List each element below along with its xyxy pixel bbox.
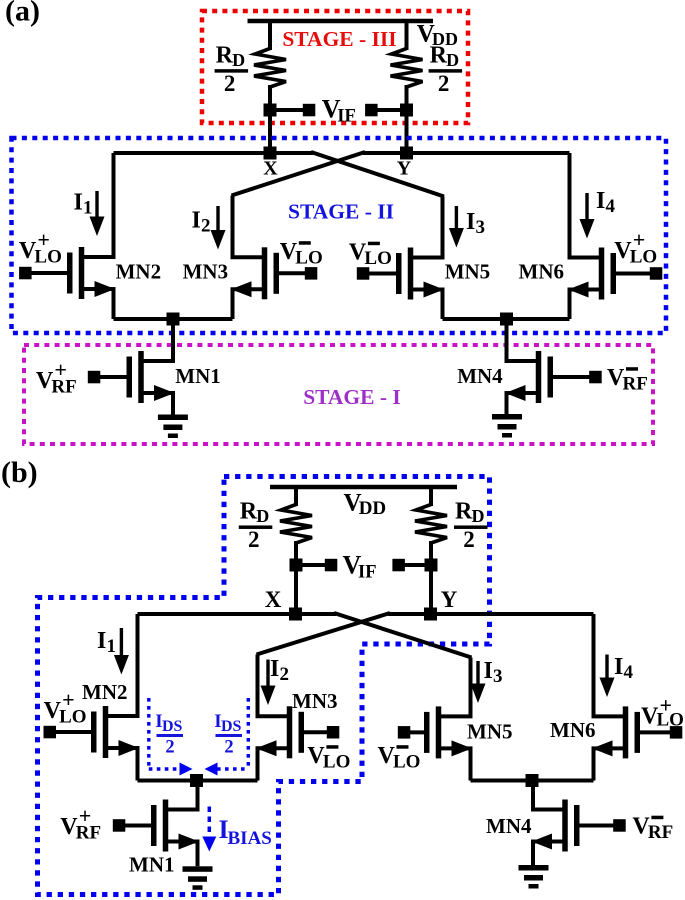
svg-text:2: 2	[248, 527, 260, 552]
net label VRF- for MN4 (b)	[632, 814, 673, 844]
wire: right resistor to node Y (b)	[429, 541, 433, 614]
svg-text:Y: Y	[441, 587, 458, 612]
current label I2 (b)	[270, 656, 289, 685]
IBIAS dashed arrow (b)	[202, 807, 216, 852]
transistor MN1 (a): gate terminal pad	[88, 371, 101, 384]
junction: MN2/MN3 sources (b)	[190, 774, 203, 787]
svg-text:+: +	[79, 803, 92, 828]
transistor MN4 (a): drain wire	[507, 319, 539, 361]
transistor MN6 (b): gate terminal pad	[670, 726, 683, 739]
junction: right resistor / VIF tap (a)	[400, 104, 413, 117]
svg-text:I: I	[74, 190, 83, 216]
transistor MN4 (b): gate bar	[574, 805, 580, 846]
net label VLO+ for MN2 (b)	[44, 687, 87, 728]
transistor MN6 (a): gate terminal pad	[650, 267, 663, 280]
net label VLO- for MN5 (b)	[378, 743, 421, 773]
current label I4 (b)	[614, 654, 634, 683]
svg-text:MN3: MN3	[183, 260, 229, 284]
svg-text:MN2: MN2	[116, 260, 162, 284]
transistor MN3 (a): source wire	[233, 289, 265, 319]
transistor MN5 (b): channel bar	[436, 706, 442, 758]
wire: VIF right tap (b)	[398, 563, 431, 567]
wire: right resistor to node Y (a)	[405, 85, 409, 153]
terminal pad VIF right (b)	[392, 559, 405, 572]
transistor MN6 (a): source wire	[570, 290, 602, 320]
wire: VDD rail to right resistor (a)	[405, 19, 409, 50]
ground symbol (MN4 source (a))	[492, 414, 522, 438]
transistor MN3 (a): source arrow	[231, 281, 252, 297]
current arrow I1 (a)	[90, 191, 105, 236]
transistor MN6 (b): gate wire	[640, 730, 676, 734]
svg-text:I: I	[466, 209, 475, 235]
IDS/2 dotted path right vertical (b)	[247, 698, 250, 769]
transistor MN1 (a): channel bar	[138, 351, 144, 403]
svg-text:2: 2	[280, 664, 290, 685]
transistor MN3 (a): gate bar	[274, 253, 280, 294]
STAGE-II dotted box (a)	[12, 138, 667, 333]
svg-text:D: D	[472, 506, 485, 526]
transistor MN1 (a): source arrow	[154, 385, 175, 401]
net label VIF (a)	[322, 95, 356, 127]
svg-text:MN2: MN2	[82, 680, 128, 704]
svg-text:1: 1	[107, 636, 117, 657]
transistor MN5 (b): source wire	[439, 748, 471, 780]
net label VDD (a)	[417, 21, 458, 50]
svg-text:I: I	[270, 656, 279, 682]
svg-text:+: +	[62, 687, 75, 712]
svg-text:2: 2	[463, 527, 475, 552]
svg-text:2: 2	[224, 71, 236, 96]
transistor MN2 (a): source wire	[82, 289, 114, 319]
svg-text:MN6: MN6	[519, 260, 565, 284]
wire: VDD rail to left resistor (b)	[294, 485, 298, 506]
net label VRF- for MN4 (a)	[607, 365, 648, 395]
transistor MN5 (a): drain wire	[411, 197, 443, 258]
junction: left resistor / VIF tap (b)	[290, 559, 303, 572]
svg-text:STAGE - I: STAGE - I	[303, 385, 401, 409]
wire: VIF right tap (a)	[371, 108, 407, 112]
wire: diagonal X rail to MN5 drain (b)	[334, 613, 472, 658]
transistor MN2 (b): source wire	[106, 748, 138, 781]
transistor MN1 (b): channel bar	[163, 800, 169, 852]
value label RD/2 left (a) (RD/2)	[215, 42, 249, 96]
net label VLO- for MN3 (b)	[307, 743, 350, 773]
svg-text:3: 3	[493, 666, 503, 687]
transistor MN6 (a): gate bar	[611, 253, 617, 294]
blue dotted highlight outline (b)	[38, 477, 490, 895]
svg-text:I: I	[484, 658, 493, 684]
current arrow I4 (a)	[580, 193, 595, 239]
net label VRF+ for MN1 (b)	[60, 803, 101, 844]
transistor MN4 (a): gate bar	[548, 357, 554, 398]
transistor MN4 (a): source wire	[507, 393, 539, 414]
node X junction (b)	[289, 608, 302, 621]
svg-text:DS: DS	[162, 718, 183, 735]
STAGE-III dotted box (a)	[202, 11, 468, 123]
transistor MN3 (b): gate bar	[299, 712, 305, 753]
transistor MN3 (b): channel bar	[287, 706, 293, 758]
wire: diagonal Y rail to MN3 drain (a)	[232, 152, 366, 196]
wire: MN5-MN6 common source rail (a)	[443, 317, 570, 321]
svg-text:I: I	[192, 208, 201, 234]
transistor MN6 (b): drain wire	[594, 614, 626, 716]
current label I3 (a)	[466, 209, 485, 238]
junction: MN2/MN3 sources (a)	[167, 313, 180, 326]
current arrow I2 (b)	[261, 660, 276, 706]
transistor MN2 (b): channel bar	[103, 706, 109, 758]
svg-text:MN5: MN5	[445, 260, 491, 284]
transistor MN5 (b): source arrow	[452, 740, 473, 756]
transistor MN6 (b): gate bar	[635, 712, 641, 753]
transistor MN5 (a): gate bar	[396, 253, 402, 294]
svg-text:RF: RF	[648, 822, 673, 843]
net label VRF+ for MN1 (a)	[36, 357, 77, 398]
transistor MN3 (a): gate terminal pad	[305, 267, 318, 280]
svg-text:STAGE - III: STAGE - III	[282, 27, 396, 51]
resistor RD/2 right (a) zigzag	[391, 49, 423, 88]
transistor MN5 (b): gate terminal pad	[398, 726, 411, 739]
transistor MN4 (b): source wire	[533, 842, 565, 866]
current arrow I1 (b)	[114, 628, 129, 675]
svg-text:DS: DS	[221, 718, 242, 735]
svg-text:D: D	[256, 506, 269, 526]
transistor MN2 (a): gate terminal pad	[19, 267, 32, 280]
svg-text:IF: IF	[358, 563, 377, 583]
wire: MN5-MN6 common source rail (b)	[471, 779, 594, 783]
transistor MN6 (b): source wire	[594, 748, 626, 780]
transistor MN4 (a): gate wire	[553, 375, 596, 379]
svg-text:+: +	[660, 693, 673, 718]
wire: left output rail through X (b)	[138, 612, 337, 616]
svg-text:(a): (a)	[5, 0, 40, 28]
transistor MN3 (b): gate wire	[304, 730, 333, 734]
wire: diagonal X rail to MN5 drain (a)	[311, 152, 444, 197]
transistor MN5 (b): gate bar	[424, 712, 430, 753]
transistor MN2 (a): source arrow	[95, 281, 116, 297]
wire: right output rail through Y (a)	[363, 151, 570, 155]
node X junction (a)	[264, 147, 277, 160]
transistor MN4 (b): drain wire	[533, 781, 565, 810]
junction: MN5/MN6 sources (a)	[500, 313, 513, 326]
transistor MN3 (b): drain wire	[258, 655, 290, 717]
svg-text:3: 3	[476, 217, 486, 238]
transistor MN2 (b): source arrow	[119, 740, 140, 756]
resistor RD/2 left (a) zigzag	[254, 49, 286, 88]
ground symbol (MN4 source (b))	[519, 865, 549, 889]
wire: left output rail through X (a)	[114, 151, 314, 155]
svg-text:2: 2	[201, 216, 211, 237]
transistor MN5 (b): drain wire	[439, 658, 471, 717]
transistor MN3 (a): gate wire	[279, 271, 311, 275]
svg-text:D: D	[232, 50, 245, 70]
value label IDS/2 left (b)	[155, 711, 183, 758]
svg-text:2: 2	[438, 71, 450, 96]
transistor MN5 (a): gate terminal pad	[357, 267, 370, 280]
transistor MN6 (b): source arrow	[592, 740, 613, 756]
transistor MN4 (a): gate terminal pad	[589, 371, 602, 384]
svg-text:MN5: MN5	[467, 720, 513, 744]
wire: right output rail through Y (b)	[388, 612, 594, 616]
transistor MN6 (a): drain wire	[570, 153, 602, 258]
IDS/2 dotted path right horizontal (b)	[217, 767, 248, 770]
IDS/2 dotted path left horizontal (b)	[149, 767, 180, 770]
svg-text:4: 4	[624, 662, 634, 683]
transistor MN5 (a): channel bar	[408, 248, 414, 300]
transistor MN2 (b): gate terminal pad	[44, 726, 57, 739]
svg-text:X: X	[265, 587, 282, 612]
svg-text:+: +	[633, 227, 646, 252]
svg-text:D: D	[446, 50, 459, 70]
transistor MN1 (b): source arrow	[179, 834, 200, 850]
svg-text:4: 4	[606, 196, 616, 217]
IDS/2 dotted path left vertical (b)	[147, 698, 150, 769]
value label IDS/2 right (b)	[214, 711, 242, 758]
current arrow I3 (a)	[449, 206, 464, 248]
IDS/2 arrow left-pointing (b)	[205, 763, 218, 776]
svg-text:MN1: MN1	[129, 853, 175, 877]
svg-text:MN3: MN3	[292, 689, 338, 713]
transistor MN6 (b): channel bar	[623, 706, 629, 758]
transistor MN2 (a): drain wire	[82, 153, 114, 257]
net label VLO+ for MN6 (b)	[641, 693, 684, 731]
svg-text:MN1: MN1	[175, 364, 221, 388]
transistor MN6 (a): channel bar	[599, 248, 605, 300]
terminal pad VIF left (b)	[325, 559, 338, 572]
svg-text:(b): (b)	[1, 456, 38, 489]
junction: left resistor / VIF tap (a)	[264, 104, 277, 117]
transistor MN4 (b): source arrow	[532, 834, 553, 850]
transistor MN2 (b): drain wire	[106, 614, 138, 716]
ground symbol (MN1 source (a))	[158, 415, 188, 439]
transistor MN2 (a): gate wire	[25, 271, 67, 275]
net label VLO+ for MN2 (a)	[19, 227, 62, 268]
transistor MN1 (b): gate bar	[151, 805, 157, 846]
svg-text:IF: IF	[337, 107, 356, 127]
ground symbol (MN1 source (b))	[183, 866, 213, 890]
transistor MN3 (a): drain wire	[233, 196, 265, 258]
terminal pad VIF right (a)	[365, 104, 378, 117]
current label I4 (a)	[596, 188, 616, 217]
svg-text:R: R	[216, 42, 234, 68]
svg-text:1: 1	[83, 198, 93, 219]
resistor RD/2 left (b) zigzag	[280, 505, 312, 544]
svg-text:RF: RF	[623, 374, 648, 395]
transistor MN5 (a): source wire	[411, 290, 443, 320]
transistor MN1 (a): drain wire	[141, 319, 173, 361]
transistor MN1 (a): gate bar	[127, 357, 133, 398]
wire: diagonal Y rail to MN3 drain (b)	[257, 613, 391, 655]
node Y junction (a)	[400, 147, 413, 160]
STAGE-I dotted box (a)	[24, 345, 653, 444]
current arrow I4 (b)	[600, 655, 615, 698]
transistor MN6 (a): source arrow	[568, 282, 589, 298]
transistor MN2 (a): gate bar	[67, 253, 73, 294]
value label RD/2 left (b) (RD/2)	[239, 499, 272, 553]
current arrow I2 (a)	[211, 206, 226, 250]
terminal pad VIF left (a)	[303, 104, 316, 117]
svg-text:STAGE - II: STAGE - II	[288, 200, 394, 224]
svg-text:+: +	[37, 227, 50, 252]
svg-text:DD: DD	[359, 498, 386, 519]
junction: MN5/MN6 sources (b)	[526, 774, 539, 787]
transistor MN2 (a): channel bar	[79, 247, 85, 299]
resistor RD/2 right (b) zigzag	[415, 505, 447, 544]
transistor MN5 (a): source arrow	[424, 282, 445, 298]
transistor MN5 (a): gate wire	[363, 272, 396, 276]
transistor MN1 (b): source wire	[166, 842, 198, 867]
wire: VDD rail to right resistor (b)	[429, 485, 433, 506]
current arrow I3 (b)	[471, 661, 486, 703]
junction: right resistor / VIF tap (b)	[425, 559, 438, 572]
svg-text:I: I	[596, 188, 605, 214]
node Y junction (b)	[424, 608, 437, 621]
net label VIF (b)	[343, 551, 377, 583]
transistor MN4 (a): channel bar	[536, 351, 542, 403]
IDS/2 arrow right-pointing (b)	[180, 763, 193, 776]
current label I1 (a)	[74, 190, 93, 219]
transistor MN4 (b): gate terminal pad	[613, 819, 626, 832]
transistor MN3 (a): channel bar	[262, 247, 268, 299]
wire: VIF left tap (b)	[296, 563, 331, 567]
transistor MN4 (b): channel bar	[562, 800, 568, 852]
wire: VIF left tap (a)	[270, 108, 308, 112]
transistor MN1 (b): drain wire	[166, 781, 198, 810]
transistor MN1 (b): gate terminal pad	[113, 819, 126, 832]
transistor MN3 (b): source wire	[258, 748, 290, 780]
svg-text:R: R	[240, 499, 258, 525]
current label I3 (b)	[484, 658, 503, 687]
svg-text:I: I	[97, 628, 106, 654]
current label I1 (b)	[97, 628, 116, 657]
net label VLO+ for MN6 (a)	[614, 227, 657, 268]
svg-text:R: R	[430, 42, 448, 68]
current label I2 (a)	[192, 208, 211, 237]
net label VLO- for MN5 (a)	[349, 240, 392, 270]
svg-text:LO: LO	[323, 752, 350, 773]
svg-text:+: +	[54, 357, 67, 382]
svg-text:R: R	[455, 499, 473, 525]
svg-text:X: X	[263, 158, 278, 180]
transistor MN3 (b): gate terminal pad	[327, 726, 340, 739]
svg-text:LO: LO	[393, 752, 420, 773]
transistor MN1 (a): gate wire	[94, 375, 127, 379]
svg-text:2: 2	[224, 738, 233, 758]
svg-text:Y: Y	[397, 158, 412, 180]
net label VDD (b)	[344, 490, 387, 520]
svg-text:LO: LO	[364, 248, 391, 269]
value label RD/2 right (b) (RD/2)	[454, 499, 488, 553]
transistor MN3 (b): source arrow	[256, 740, 277, 756]
transistor MN2 (b): gate bar	[91, 712, 97, 753]
svg-text:MN4: MN4	[457, 364, 503, 388]
transistor MN6 (a): gate wire	[616, 272, 656, 276]
transistor MN2 (b): gate wire	[50, 730, 91, 734]
transistor MN4 (a): source arrow	[505, 385, 526, 401]
svg-text:I: I	[614, 654, 623, 680]
transistor MN1 (b): gate wire	[119, 824, 151, 828]
wire: MN2-MN3 common source rail (b)	[138, 779, 258, 783]
net label VLO- for MN3 (a)	[280, 239, 323, 269]
transistor MN5 (b): gate wire	[404, 730, 424, 734]
svg-text:2: 2	[165, 738, 174, 758]
current label IBIAS (b)	[219, 815, 272, 849]
wire: VDD rail to left resistor (a)	[268, 19, 272, 50]
wire: MN2-MN3 common source rail (a)	[114, 317, 233, 321]
transistor MN1 (a): source wire	[141, 393, 173, 415]
wire: left resistor to node X (a)	[268, 85, 272, 153]
svg-text:MN4: MN4	[486, 814, 532, 838]
power rail VDD wire (a)	[248, 19, 434, 23]
value label RD/2 right (a) (RD/2)	[429, 42, 463, 96]
transistor MN4 (b): gate wire	[580, 824, 620, 828]
svg-text:MN6: MN6	[550, 718, 596, 742]
power rail VDD wire (b)	[270, 485, 457, 489]
wire: left resistor to node X (b)	[294, 541, 298, 614]
svg-text:LO: LO	[295, 248, 322, 269]
svg-text:BIAS: BIAS	[228, 828, 272, 849]
